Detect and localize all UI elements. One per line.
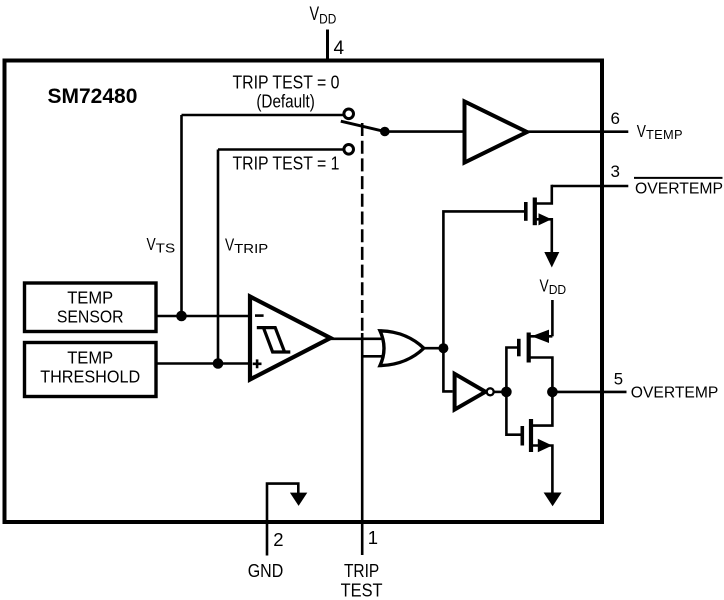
svg-text:TRIP TEST = 1: TRIP TEST = 1: [233, 153, 340, 174]
wire Q1 gate: [443, 211, 524, 348]
svg-text:TEST: TEST: [341, 580, 383, 600]
transistor Q1 source wire: [536, 219, 552, 253]
buffer A1 (VTEMP output buffer): [465, 102, 528, 163]
transistor Q2 drain wire: [530, 358, 552, 392]
svg-text:THRESHOLD: THRESHOLD: [40, 367, 140, 387]
svg-text:SM72480: SM72480: [48, 85, 138, 108]
junction node VTRIP: [213, 358, 224, 369]
arrow to ground below Q3: [544, 493, 562, 507]
wire temp sensor to comparator minus: [156, 315, 250, 318]
comparator hysteresis symbol: [257, 328, 291, 352]
svg-text:3: 3: [611, 162, 620, 181]
ground symbol wire (pin 2): [267, 484, 298, 556]
transistor Q2 gate bar: [517, 339, 521, 357]
OR gate U2: [380, 331, 424, 366]
chip boundary SM72480: [5, 61, 603, 523]
switch S1 pole junction: [380, 127, 390, 137]
wire to Q2 gate: [506, 348, 517, 392]
svg-text:VTS: VTS: [147, 234, 176, 256]
inverter U3 bubble: [487, 388, 494, 395]
svg-text:1: 1: [368, 527, 378, 548]
transistor Q3 source wire: [533, 446, 552, 494]
transistor Q2 channel bar: [527, 333, 531, 363]
svg-text:4: 4: [334, 38, 345, 59]
transistor Q2 source arrow: [532, 330, 550, 343]
svg-text:TEMP: TEMP: [67, 348, 113, 368]
wire VTS horizontal to switch throw 0: [182, 114, 344, 117]
svg-text:SENSOR: SENSOR: [57, 306, 124, 326]
transistor Q3 source arrow: [538, 439, 552, 452]
transistor Q1 channel bar: [533, 198, 537, 226]
block TEMP THRESHOLD: [25, 343, 157, 397]
transistor Q3 channel bar: [529, 419, 533, 452]
wire TRIP TEST dashed: [361, 123, 364, 333]
wire inverter output: [494, 391, 507, 394]
wire pin 5: [552, 391, 626, 394]
svg-text:OVERTEMP: OVERTEMP: [631, 384, 719, 401]
transistor Q3 gate bar: [520, 426, 524, 446]
comparator U1: [250, 297, 331, 380]
svg-text:VDD: VDD: [310, 4, 337, 27]
wire pin 3: [552, 185, 629, 188]
block TEMP SENSOR: [25, 283, 157, 332]
wire TRIP TEST stub to OR gate: [362, 355, 385, 358]
switch S1 blade: [341, 121, 385, 131]
inverter U3: [455, 374, 486, 410]
svg-text:6: 6: [611, 109, 620, 128]
transistor Q2 source wire: [530, 335, 552, 338]
svg-text:TRIP TEST = 0: TRIP TEST = 0: [233, 71, 340, 92]
transistor Q3 drain wire: [533, 392, 552, 426]
svg-text:(Default): (Default): [256, 90, 315, 111]
ground arrow: [290, 493, 307, 506]
switch S1 throw contact 0: [344, 109, 354, 119]
wire switch pole to buffer input: [385, 130, 465, 133]
wire temp threshold to comparator plus: [156, 362, 250, 365]
junction node OR output: [438, 343, 448, 353]
pin 4 wire: [326, 30, 329, 61]
svg-text:VDD: VDD: [540, 276, 567, 298]
svg-text:VTEMP: VTEMP: [637, 121, 683, 142]
wire VDD stub to Q2 source: [551, 300, 554, 336]
switch S1 throw contact 1: [344, 145, 354, 155]
svg-text:5: 5: [614, 370, 623, 389]
svg-text:VTRIP: VTRIP: [225, 235, 268, 257]
wire OR output: [424, 347, 443, 350]
transistor Q1 gate bar: [524, 202, 528, 221]
transistor Q1 drain wire: [536, 185, 552, 204]
overline of OVERTEMP pin 3: [634, 177, 723, 179]
wire OR output node to inverter input: [443, 348, 452, 391]
junction node output pin 5: [547, 387, 558, 398]
comparator plus sign: [253, 359, 262, 368]
svg-text:GND: GND: [248, 560, 284, 581]
svg-text:2: 2: [273, 529, 283, 550]
wire VTRIP vertical: [217, 150, 220, 364]
wire comparator output to OR gate: [331, 337, 386, 340]
svg-text:TEMP: TEMP: [67, 287, 113, 307]
wire VTRIP horizontal to switch throw 1: [218, 148, 344, 151]
transistor Q1 source arrow: [539, 213, 552, 225]
wire VTS vertical: [180, 115, 183, 316]
svg-text:TRIP: TRIP: [344, 560, 379, 581]
svg-text:OVERTEMP: OVERTEMP: [635, 180, 723, 197]
wire buffer output to pin 6: [527, 130, 628, 133]
junction node VTS: [176, 311, 187, 322]
wire TRIP TEST pin 1: [361, 333, 364, 555]
junction node inverter output: [501, 387, 512, 398]
comparator minus sign: [255, 314, 264, 317]
wire to Q3 gate: [506, 392, 521, 435]
arrow to ground below Q1: [544, 252, 559, 268]
